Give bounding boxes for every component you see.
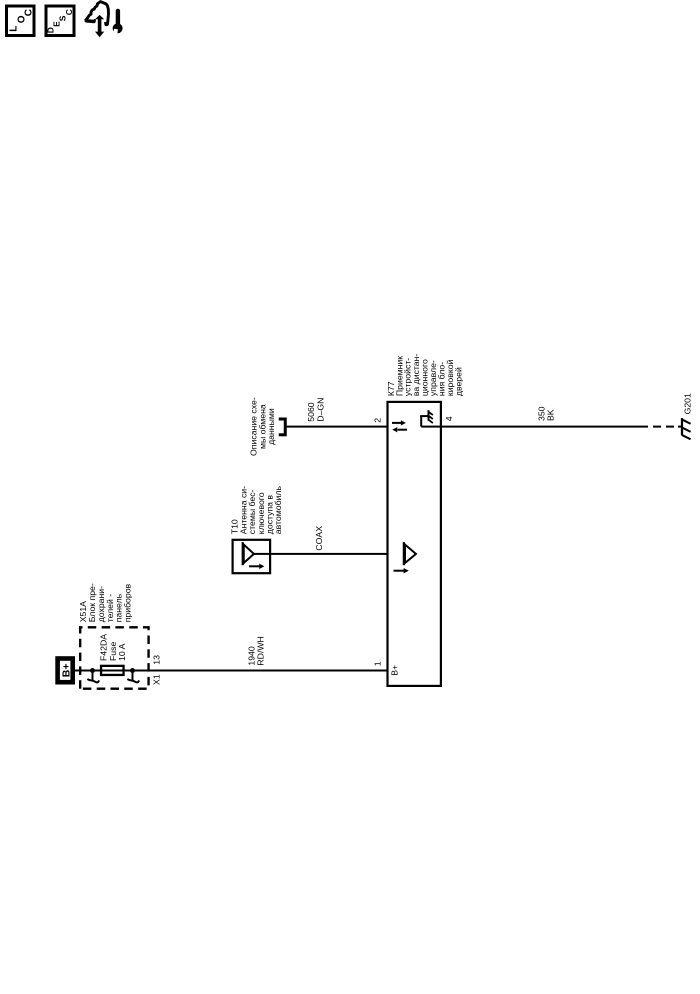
T10 antenna box xyxy=(233,540,271,573)
svg-text:D–GN: D–GN xyxy=(315,398,325,422)
svg-text:G201: G201 xyxy=(682,393,692,414)
svg-text:C: C xyxy=(24,9,35,16)
COAX wire T10 to K77 xyxy=(253,553,388,555)
antenna symbol inside K77 xyxy=(404,542,416,565)
wire 350 BK pin 4 to G201 xyxy=(421,426,682,428)
svg-text:X1: X1 xyxy=(151,674,161,685)
B+ power feed box xyxy=(58,659,73,683)
K77 receiver box xyxy=(388,402,441,686)
antenna symbol T10 xyxy=(243,542,254,565)
svg-text:C: C xyxy=(64,9,74,15)
wire 5060 D-GN to pin 2 xyxy=(285,426,387,428)
internal ground at pin 4 xyxy=(420,410,433,426)
wire label 5060 D-GN xyxy=(306,398,325,422)
svg-text:B+: B+ xyxy=(61,664,73,678)
svg-text:1: 1 xyxy=(373,661,383,666)
svg-text:10 A: 10 A xyxy=(117,643,127,661)
svg-text:4: 4 xyxy=(444,416,454,421)
vehicle service icon xyxy=(85,2,122,38)
fuse terminal clip upper xyxy=(88,668,99,682)
serial data bracket xyxy=(279,419,286,435)
svg-text:13: 13 xyxy=(151,655,161,665)
T10 signal arrow xyxy=(249,564,264,569)
DESC icon box xyxy=(45,6,74,36)
K77 antenna arrow xyxy=(394,568,409,573)
ground G201 xyxy=(682,418,691,439)
svg-text:COAX: COAX xyxy=(314,526,324,551)
fuse block label X51A xyxy=(78,583,133,622)
svg-text:данными: данными xyxy=(266,408,276,445)
T10 label xyxy=(230,486,284,535)
wire label 1940 RD/WH xyxy=(247,636,266,665)
data description label xyxy=(249,397,276,456)
svg-text:L: L xyxy=(8,26,19,32)
wire B+ to K77 pin 1 xyxy=(75,670,388,672)
svg-text:B+: B+ xyxy=(389,665,399,676)
svg-text:D: D xyxy=(45,27,55,33)
LOC icon box xyxy=(7,6,35,36)
fuse terminal clip lower xyxy=(128,668,139,682)
connector label X1 / pin 13 xyxy=(151,655,161,685)
fuse label F42DA xyxy=(98,634,127,661)
K77 label xyxy=(386,354,464,397)
svg-text:RD/WH: RD/WH xyxy=(256,636,266,665)
wire label 350 BK xyxy=(536,406,555,421)
svg-text:приборов: приборов xyxy=(123,583,133,622)
svg-text:дверей: дверей xyxy=(453,367,463,396)
rotated landscape schematic xyxy=(58,354,693,689)
serial data arrows inside K77 xyxy=(392,420,407,432)
fuse block X51A dashed box xyxy=(80,627,148,688)
fuse F42DA xyxy=(101,666,124,675)
svg-text:автомобиль: автомобиль xyxy=(273,486,283,535)
svg-text:2: 2 xyxy=(373,418,383,423)
svg-text:BK: BK xyxy=(545,409,555,421)
